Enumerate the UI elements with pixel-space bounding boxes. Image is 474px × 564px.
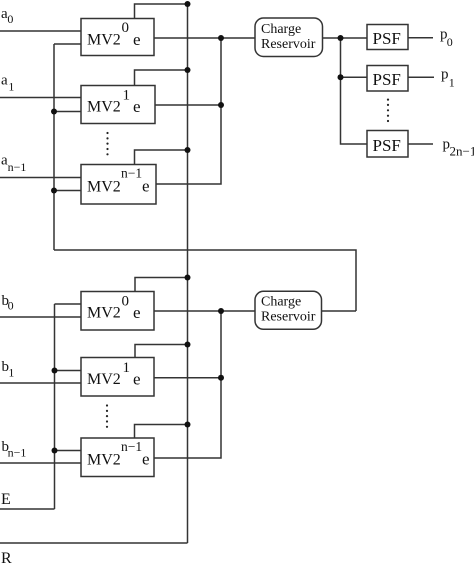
- svg-text:1: 1: [8, 366, 14, 380]
- junction collector A U1: [218, 35, 224, 41]
- svg-text:MV2: MV2: [87, 179, 121, 196]
- node b0 label: [2, 293, 14, 313]
- wire U3 top to R bus: [135, 150, 188, 165]
- junction collector A U2: [218, 102, 224, 108]
- svg-text:1: 1: [8, 80, 14, 94]
- svg-text:e: e: [133, 30, 141, 49]
- bus PSF vertical: [341, 38, 368, 144]
- node a0 label: [1, 6, 13, 26]
- svg-text:MV2: MV2: [87, 99, 121, 116]
- U3 label MV2: [87, 179, 121, 196]
- MV2 0 box U1: [81, 19, 154, 56]
- U1 superscript 0: [122, 20, 130, 36]
- node b1 label: [2, 359, 15, 380]
- wire U5 output: [154, 377, 221, 379]
- wire U5 top to R bus: [135, 345, 188, 358]
- node b n-1 label: [2, 439, 27, 460]
- node p1 label: [441, 67, 455, 90]
- wire b n-1 input: [0, 462, 81, 464]
- ellipsis between U2 and U3: [106, 132, 108, 156]
- node p0 label: [440, 27, 453, 50]
- svg-text:Charge: Charge: [261, 295, 301, 310]
- svg-text:Reservoir: Reservoir: [261, 310, 316, 325]
- junction PSF bus F1: [338, 35, 344, 41]
- charge reservoir CR1: [255, 18, 323, 57]
- wire feedback from CR2 to e-bus A: [54, 250, 356, 311]
- svg-text:PSF: PSF: [373, 136, 401, 155]
- svg-text:n−1: n−1: [8, 160, 27, 174]
- U4 pin e label: [133, 303, 141, 322]
- U6 superscript n-1: [121, 439, 142, 454]
- wire F3 output: [408, 143, 433, 145]
- svg-text:e: e: [142, 450, 150, 469]
- node a1 label: [1, 73, 14, 94]
- svg-text:n−1: n−1: [121, 166, 142, 181]
- CR1 label: [261, 22, 316, 52]
- U6 label MV2: [87, 452, 121, 469]
- wire U3 e input: [54, 190, 81, 192]
- svg-text:0: 0: [8, 299, 14, 313]
- PSF box F3: [367, 131, 408, 158]
- U3 superscript n-1: [121, 166, 142, 181]
- U5 label MV2: [87, 371, 121, 388]
- wire R input: [0, 542, 188, 544]
- svg-text:1: 1: [123, 360, 131, 376]
- svg-text:1: 1: [123, 88, 131, 104]
- junction R bus top: [185, 1, 191, 7]
- MV2 n-1 box U6: [81, 438, 154, 477]
- U6 pin e label: [142, 450, 150, 469]
- svg-text:PSF: PSF: [373, 29, 401, 48]
- charge reservoir CR2: [255, 291, 322, 329]
- junction collector B U5: [218, 375, 224, 381]
- junction collector B U4: [218, 308, 224, 314]
- junction R bus U3: [185, 147, 191, 153]
- node p2n-1 label: [443, 137, 474, 159]
- svg-text:e: e: [133, 303, 141, 322]
- svg-text:e: e: [133, 97, 141, 116]
- wire U6 top to R bus: [135, 425, 188, 439]
- svg-text:E: E: [1, 491, 11, 508]
- PSF box F1: [367, 25, 408, 50]
- node E label: [1, 491, 11, 508]
- wire a n-1 input: [0, 177, 81, 179]
- F3 label: [373, 136, 401, 155]
- svg-text:R: R: [1, 550, 12, 564]
- svg-text:0: 0: [122, 294, 130, 310]
- wire F2 output: [408, 76, 434, 78]
- svg-text:0: 0: [447, 35, 453, 49]
- bus A e-line vertical: [53, 44, 55, 250]
- U5 superscript 1: [123, 360, 131, 376]
- wire U2 e input: [54, 111, 81, 113]
- svg-text:PSF: PSF: [373, 70, 401, 89]
- U1 pin e label: [133, 30, 141, 49]
- svg-text:n−1: n−1: [121, 439, 142, 454]
- node R label: [1, 550, 12, 564]
- wire U1 top to R bus: [135, 4, 188, 19]
- junction R bus U2: [185, 67, 191, 73]
- wire U2 top to R bus: [135, 70, 188, 86]
- svg-text:p: p: [441, 67, 449, 83]
- U2 superscript 1: [123, 88, 131, 104]
- wire U1 e input: [54, 43, 81, 45]
- U2 label MV2: [87, 99, 121, 116]
- svg-text:e: e: [133, 370, 141, 389]
- svg-text:MV2: MV2: [87, 32, 121, 49]
- junction e bus U6: [52, 448, 58, 454]
- wire collector A to Charge Reservoir 1: [221, 37, 255, 39]
- F2 label: [373, 70, 401, 89]
- svg-text:e: e: [142, 177, 150, 196]
- wire U3 output to collector bus A: [156, 38, 221, 184]
- MV2 n-1 box U3: [81, 165, 156, 205]
- wire F2 input: [341, 76, 368, 78]
- ellipsis between F2 and F3: [387, 99, 389, 123]
- junction R bus U6: [185, 422, 191, 428]
- junction PSF bus F2: [338, 74, 344, 80]
- bus B e-line vertical to E wire: [54, 304, 56, 509]
- svg-text:2n−1: 2n−1: [450, 144, 474, 159]
- wire U1 output: [154, 37, 221, 39]
- junction R bus U4: [185, 275, 191, 281]
- svg-text:Charge: Charge: [261, 22, 301, 37]
- bus R vertical: [187, 4, 189, 543]
- svg-text:MV2: MV2: [87, 452, 121, 469]
- svg-text:a: a: [1, 73, 8, 89]
- wire b0 input: [0, 316, 81, 318]
- wire F1 output: [408, 37, 433, 39]
- wire b1 input: [0, 382, 81, 384]
- wire E input: [0, 508, 55, 510]
- U4 label MV2: [87, 305, 121, 322]
- MV2 0 box U4: [81, 292, 154, 331]
- junction R bus U5: [185, 342, 191, 348]
- wire a0 input: [0, 30, 81, 32]
- MV2 1 box U5: [81, 358, 154, 397]
- svg-text:1: 1: [449, 76, 455, 90]
- wire U6 e input: [55, 450, 82, 452]
- wire U4 e input from bus B: [55, 303, 82, 305]
- PSF box F2: [367, 66, 408, 92]
- svg-text:0: 0: [7, 12, 13, 26]
- svg-text:n−1: n−1: [8, 446, 27, 460]
- junction e bus U2: [51, 109, 57, 115]
- wire U4 top to R bus: [135, 278, 188, 292]
- F1 label: [373, 29, 401, 48]
- junction e bus U3: [51, 188, 57, 194]
- CR2 label: [261, 295, 316, 325]
- wire a1 input: [0, 97, 81, 99]
- wire U4 output: [154, 310, 255, 312]
- wire U5 e input: [55, 370, 82, 372]
- U2 pin e label: [133, 97, 141, 116]
- node a n-1 label: [1, 153, 26, 174]
- junction e bus U5: [52, 368, 58, 374]
- svg-text:0: 0: [122, 20, 130, 36]
- wire CR1 output: [323, 37, 368, 39]
- U3 pin e label: [142, 177, 150, 196]
- ellipsis between U5 and U6: [106, 404, 108, 428]
- wire U2 output: [155, 104, 221, 106]
- svg-text:MV2: MV2: [87, 305, 121, 322]
- wire U6 output to collector bus B: [154, 311, 221, 458]
- U1 label MV2: [87, 32, 121, 49]
- U5 pin e label: [133, 370, 141, 389]
- MV2 1 box U2: [81, 86, 155, 124]
- U4 superscript 0: [122, 294, 130, 310]
- svg-text:MV2: MV2: [87, 371, 121, 388]
- wire CR2 output: [322, 310, 357, 312]
- svg-text:Reservoir: Reservoir: [261, 37, 316, 52]
